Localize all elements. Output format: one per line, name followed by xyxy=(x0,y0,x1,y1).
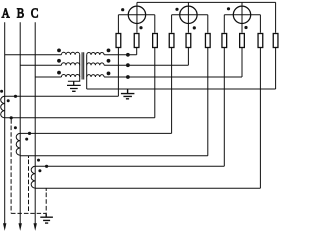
TV1 secondary polarity dot a xyxy=(107,49,111,53)
svg-text:A: A xyxy=(2,5,11,20)
node dot TA3 top lead xyxy=(45,165,48,168)
wire phase B vertical xyxy=(19,22,21,228)
wire W1 horizontal (current coil path) xyxy=(118,14,154,16)
wire secondary phase a row xyxy=(104,54,137,56)
ground TV1 primary neutral xyxy=(67,81,81,91)
wire VT primary tap phase A (row 1 left) xyxy=(5,54,62,56)
wire TA2 top lead xyxy=(20,132,171,134)
wire TV1 secondary star vertical and neutral start xyxy=(86,55,88,89)
W1 polarity dot top-left xyxy=(121,8,124,11)
wire TA1 top lead xyxy=(5,95,119,97)
TA3 primary polarity dot xyxy=(37,159,40,162)
wire common earth dashed horizontal xyxy=(11,212,46,214)
wire W2 vertical (voltage coil path) xyxy=(187,2,189,65)
node dot TA1 earthing junction xyxy=(10,116,13,119)
transformer TV1 secondary winding c xyxy=(87,75,104,77)
wire top common neutral of meters xyxy=(137,1,276,3)
wire secondary phase c row xyxy=(104,76,242,78)
wire W3 current-out drop xyxy=(259,15,261,189)
wire W3 horizontal (current coil path) xyxy=(224,14,260,16)
wire TA2 earth dashed xyxy=(28,156,30,214)
wire W2 current-out drop xyxy=(207,15,209,156)
coil W1 current in xyxy=(116,34,121,48)
TV1 primary polarity dot a xyxy=(57,49,61,53)
TV1 primary polarity dot c xyxy=(57,71,61,75)
meter W1 element circle xyxy=(128,6,145,23)
coil W1 voltage xyxy=(134,34,139,48)
coil W3 voltage xyxy=(240,34,245,48)
coil W2 current in xyxy=(169,34,174,48)
svg-text:B: B xyxy=(17,5,24,20)
coil W2 voltage xyxy=(186,34,191,48)
node dot phase b row xyxy=(126,63,130,67)
arrow phase B xyxy=(19,223,22,231)
W3 polarity dot top-left xyxy=(227,7,230,10)
ground CT common earth xyxy=(40,213,53,223)
wire TA1 bottom lead xyxy=(5,117,155,119)
coil W3 current out xyxy=(258,34,263,48)
node dot phase a row xyxy=(126,53,130,57)
wire W1 current-out drop xyxy=(154,15,156,118)
wire W2 horizontal (current coil path) xyxy=(172,14,208,16)
wire TV1 primary star vertical xyxy=(68,55,80,82)
coil W1 current out xyxy=(153,34,158,48)
svg-text:C: C xyxy=(31,5,38,20)
wire W3 vertical (voltage coil path) xyxy=(241,2,243,77)
wire W1 current-in drop xyxy=(117,15,119,97)
TA3 secondary polarity dot xyxy=(38,169,41,172)
W2 polarity dot bottom-right xyxy=(193,26,196,29)
wire secondary phase b row xyxy=(104,64,188,66)
wire TA1 earth dashed xyxy=(10,126,12,214)
arrow phase C xyxy=(34,223,37,231)
W3 polarity dot bottom-right xyxy=(244,26,247,29)
wire W2 current-in drop xyxy=(171,15,173,134)
TV1 primary polarity dot b xyxy=(57,59,61,63)
wire phase A vertical xyxy=(4,22,6,228)
TV1 secondary polarity dot b xyxy=(107,59,111,63)
transformer TV1 secondary winding b xyxy=(87,63,104,65)
TA2 primary polarity dot xyxy=(14,126,17,129)
arrow phase A xyxy=(3,223,6,231)
node dot TA2 top lead xyxy=(28,132,31,135)
TV1 secondary polarity dot c xyxy=(107,72,111,76)
wire TA3 earth stub and dashed xyxy=(45,188,47,191)
wire VT primary tap phase C (row 3 left) xyxy=(35,76,61,78)
wire TA3 top lead xyxy=(35,165,224,167)
W1 polarity dot bottom-right xyxy=(139,26,142,29)
wire TA3 bottom lead xyxy=(35,187,260,189)
wire TA1 earth stub xyxy=(10,118,12,124)
transformer TA1 secondary winding (phase A) xyxy=(1,96,5,118)
node dot phase c row xyxy=(126,75,130,79)
TA1 secondary polarity dot xyxy=(7,99,10,102)
TA1 primary polarity dot xyxy=(0,90,3,93)
TV1 core xyxy=(82,52,84,79)
ground secondary neutral xyxy=(121,89,134,99)
wire neutral riser right xyxy=(275,2,277,89)
wire W1 vertical (voltage coil path) xyxy=(136,2,138,54)
wire secondary neutral xyxy=(87,88,276,90)
wire W3 current-in drop xyxy=(223,15,225,167)
coil W2 current out xyxy=(205,34,210,48)
transformer TV1 primary winding b xyxy=(61,63,79,66)
transformer TV1 secondary winding a xyxy=(87,52,104,54)
transformer TV1 primary winding a xyxy=(61,52,79,55)
node dot TA1 top lead xyxy=(14,95,17,98)
coil W3 current in xyxy=(222,34,227,48)
wire VT primary tap phase B (row 2 left) xyxy=(20,64,61,66)
wire phase C vertical xyxy=(34,22,36,228)
TA2 secondary polarity dot xyxy=(25,138,28,141)
fuse FU neutral xyxy=(273,34,278,48)
meter W2 element circle xyxy=(180,6,197,23)
transformer TA2 secondary winding (phase B) xyxy=(16,133,20,155)
wire TA2 bottom lead xyxy=(20,155,208,157)
W2 polarity dot top-left xyxy=(175,8,178,11)
meter W3 element circle xyxy=(233,6,250,23)
transformer TV1 primary winding c xyxy=(61,74,79,77)
transformer TA3 secondary winding (phase C) xyxy=(31,166,35,188)
